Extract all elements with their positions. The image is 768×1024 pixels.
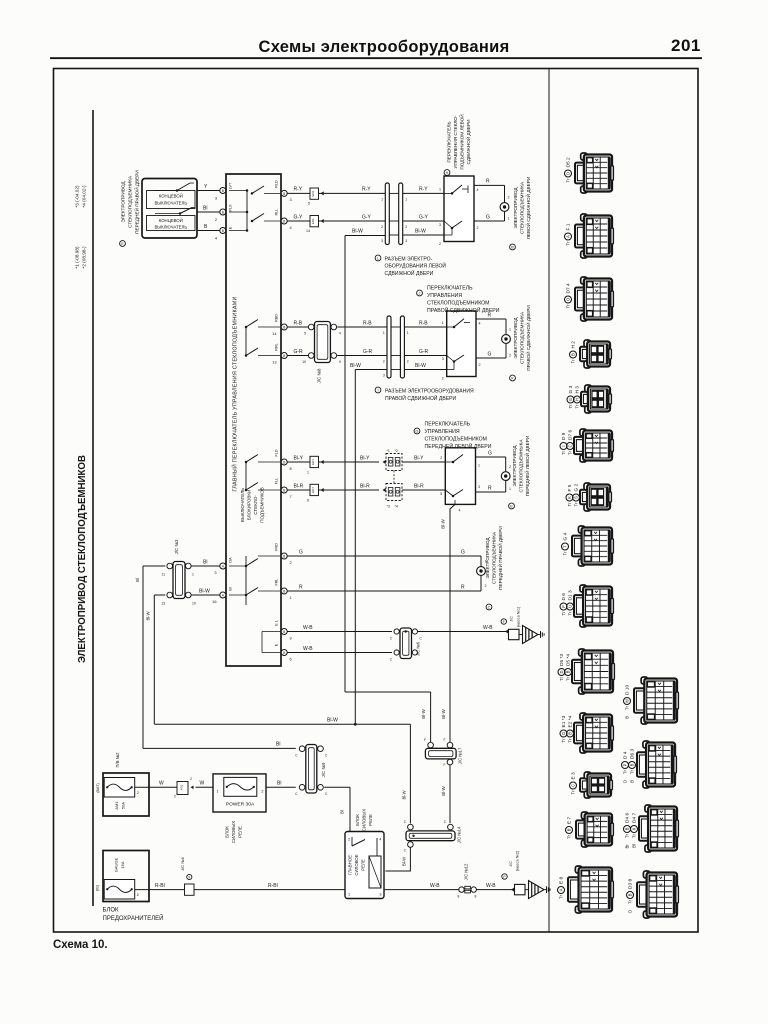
svg-text:Bl: Bl: [340, 810, 345, 814]
svg-text:Тг: Тг: [561, 738, 566, 743]
svg-text:Bl-W: Bl-W: [401, 857, 406, 866]
svg-text:Bl-R: Bl-R: [360, 483, 370, 489]
svg-text:*2: *2: [395, 449, 398, 453]
svg-text:R-B: R-B: [363, 320, 372, 326]
svg-text:R-Y: R-Y: [362, 187, 371, 193]
svg-text:В: В: [630, 763, 635, 766]
svg-text:СТЕКЛОПОДЪЕМНИКА: СТЕКЛОПОДЪЕМНИКА: [492, 531, 497, 584]
svg-text:E 3: E 3: [571, 772, 577, 780]
svg-text:СИЛОВОЕ: СИЛОВОЕ: [354, 854, 359, 875]
svg-text:1: 1: [407, 331, 409, 335]
svg-text:8: 8: [290, 466, 292, 471]
svg-text:D4 7: D4 7: [632, 813, 638, 823]
svg-text:2: 2: [407, 360, 409, 364]
svg-text:B: B: [625, 716, 630, 719]
svg-text:(IG): (IG): [96, 884, 100, 891]
svg-text:Тг: Тг: [630, 769, 635, 774]
svg-text:С: С: [568, 444, 573, 447]
svg-text:Т: Т: [563, 545, 568, 548]
svg-text:2: 2: [348, 838, 350, 842]
svg-text:Bl-Y: Bl-Y: [294, 455, 304, 461]
svg-text:R: R: [488, 485, 492, 491]
svg-text:F: F: [444, 738, 446, 742]
svg-text:2: 2: [442, 377, 444, 381]
svg-text:C: C: [325, 754, 328, 758]
svg-text:РЕЛЕ: РЕЛЕ: [361, 859, 366, 871]
svg-text:В: В: [567, 828, 572, 831]
svg-text:ED1: ED1: [311, 459, 315, 465]
svg-text:5: 5: [304, 332, 306, 336]
svg-text:Bl-W: Bl-W: [415, 363, 426, 369]
svg-text:О: О: [623, 779, 628, 783]
svg-text:*2 (08.98-): *2 (08.98-): [82, 246, 87, 269]
svg-text:В: В: [511, 246, 514, 250]
svg-text:УПРАВЛЕНИЯ: УПРАВЛЕНИЯ: [425, 429, 460, 435]
svg-text:R-Y: R-Y: [294, 187, 303, 193]
svg-text:СДВИЖНОЙ ДВЕРИ: СДВИЖНОЙ ДВЕРИ: [464, 120, 471, 165]
svg-text:4: 4: [339, 332, 341, 336]
svg-text:3: 3: [439, 223, 441, 227]
svg-text:Тг: Тг: [561, 611, 566, 616]
svg-text:Bl: Bl: [276, 742, 280, 748]
svg-text:G: G: [486, 214, 490, 220]
svg-text:E 7: E 7: [567, 816, 573, 824]
svg-text:F: F: [561, 605, 566, 608]
svg-text:1: 1: [509, 487, 511, 491]
svg-text:G-Y: G-Y: [294, 214, 304, 220]
svg-text:5: 5: [308, 202, 310, 206]
svg-text:3: 3: [442, 357, 444, 361]
svg-text:Тг: Тг: [568, 738, 573, 743]
svg-text:G: G: [299, 549, 303, 555]
svg-text:РАЗЪЕМ ЭЛЕКТРО-: РАЗЪЕМ ЭЛЕКТРО-: [385, 256, 433, 262]
svg-text:RLD: RLD: [275, 180, 279, 188]
svg-text:ПЕРЕДНЕЙ ПРАВОЙ ДВЕРИ: ПЕРЕДНЕЙ ПРАВОЙ ДВЕРИ: [133, 170, 140, 234]
svg-text:Р: Р: [623, 763, 628, 766]
svg-text:J/C: J/C: [510, 616, 514, 622]
svg-text:15A: 15A: [120, 861, 125, 868]
svg-text:ВЫКЛЮЧАТЕЛЬ: ВЫКЛЮЧАТЕЛЬ: [240, 488, 245, 522]
svg-text:2: 2: [137, 893, 139, 897]
svg-text:Bl-W: Bl-W: [352, 228, 363, 234]
svg-text:1: 1: [381, 198, 383, 202]
svg-text:БЛОК: БЛОК: [225, 826, 230, 838]
svg-text:6: 6: [307, 499, 309, 503]
svg-text:4: 4: [477, 188, 479, 192]
svg-text:Тг: Тг: [567, 834, 572, 839]
svg-text:7: 7: [290, 494, 292, 499]
svg-text:D6 3: D6 3: [630, 749, 636, 759]
svg-text:Тг: Тг: [571, 790, 576, 795]
svg-text:U: U: [568, 605, 573, 608]
svg-text:8: 8: [475, 895, 477, 899]
svg-text:W-B: W-B: [303, 625, 313, 631]
svg-text:Тг: Тг: [575, 404, 580, 409]
svg-text:СТЕКЛОПОДЪЕМНИКА: СТЕКЛОПОДЪЕМНИКА: [520, 311, 525, 364]
svg-text:RLL: RLL: [275, 209, 279, 216]
svg-text:А: А: [566, 235, 571, 238]
svg-text:ПРАВОЙ СДВИЖНОЙ ДВЕРИ: ПРАВОЙ СДВИЖНОЙ ДВЕРИ: [427, 306, 500, 314]
svg-text:Y: Y: [204, 184, 208, 190]
svg-text:G-Y: G-Y: [362, 214, 372, 220]
svg-text:J/C №8: J/C №8: [317, 368, 322, 384]
svg-text:О: О: [561, 732, 566, 735]
svg-text:Тг: Тг: [568, 404, 573, 409]
svg-text:Тг: Тг: [625, 705, 630, 710]
svg-text:Тг: Тг: [566, 241, 571, 246]
svg-text:УПРАВЛЕНИЯ: УПРАВЛЕНИЯ: [427, 293, 462, 299]
svg-text:J/C №6: J/C №6: [180, 856, 185, 870]
svg-text:БЛОКИРОВКИ: БЛОКИРОВКИ: [247, 490, 252, 521]
svg-text:В: В: [566, 670, 571, 673]
svg-text:*4: *4: [395, 505, 398, 509]
svg-text:13: 13: [272, 360, 276, 365]
svg-text:ВЫКЛЮЧАТЕЛЬ: ВЫКЛЮЧАТЕЛЬ: [154, 201, 187, 206]
svg-text:C: C: [325, 792, 328, 796]
svg-text:4: 4: [479, 322, 481, 326]
svg-text:Тг: Тг: [559, 676, 564, 681]
svg-text:6: 6: [290, 657, 292, 662]
svg-text:В: В: [568, 732, 573, 735]
svg-text:Bl-W: Bl-W: [350, 363, 361, 369]
svg-text:В: В: [571, 353, 576, 356]
svg-text:ПРАВОЙ СДВИЖНОЙ ДВЕРИ: ПРАВОЙ СДВИЖНОЙ ДВЕРИ: [385, 394, 457, 402]
svg-text:R: R: [461, 584, 465, 590]
svg-text:1: 1: [307, 471, 309, 475]
svg-text:J/C №3: J/C №3: [174, 539, 179, 555]
svg-text:D 10: D 10: [625, 685, 631, 695]
svg-text:J: J: [419, 292, 421, 296]
svg-text:AD1: AD1: [180, 784, 184, 790]
svg-text:J/C №6: J/C №6: [416, 641, 421, 656]
svg-text:Тг: Тг: [628, 899, 633, 904]
svg-text:ПЕРЕКЛЮЧАТЕЛЬ: ПЕРЕКЛЮЧАТЕЛЬ: [427, 285, 473, 291]
svg-text:К: К: [632, 827, 637, 830]
svg-text:ПРАВОЙ СДВИЖНОЙ ДВЕРИ: ПРАВОЙ СДВИЖНОЙ ДВЕРИ: [524, 305, 531, 371]
svg-text:D: D: [566, 172, 571, 175]
svg-text:Е: Е: [510, 505, 513, 509]
svg-text:Bl: Bl: [135, 578, 140, 582]
svg-text:БЛОК: БЛОК: [355, 814, 360, 826]
svg-text:1: 1: [348, 893, 350, 897]
svg-text:R-B: R-B: [419, 320, 428, 326]
svg-text:ПЕРЕДНЕЙ ЛЕВОЙ ДВЕРИ: ПЕРЕДНЕЙ ЛЕВОЙ ДВЕРИ: [425, 442, 492, 450]
svg-text:D1 3: D1 3: [568, 590, 574, 600]
svg-text:POWER 30A: POWER 30A: [226, 802, 255, 808]
svg-text:J/C: J/C: [509, 861, 513, 867]
svg-text:H 3: H 3: [575, 386, 581, 394]
svg-text:4: 4: [215, 236, 218, 241]
svg-text:Bl: Bl: [203, 559, 207, 565]
svg-text:Н: Н: [446, 171, 449, 175]
svg-text:G-R: G-R: [363, 349, 373, 355]
svg-text:Тг: Тг: [623, 769, 628, 774]
svg-text:R-Bl: R-Bl: [268, 883, 278, 889]
svg-text:Bl-W: Bl-W: [421, 708, 426, 718]
svg-text:G: G: [488, 450, 492, 456]
svg-text:2: 2: [440, 456, 442, 460]
svg-text:ЭЛЕКТРОПРИВОД СТЕКЛОПОДЪЕМНИКО: ЭЛЕКТРОПРИВОД СТЕКЛОПОДЪЕМНИКОВ: [77, 455, 88, 663]
svg-text:ГЛАВНОЕ: ГЛАВНОЕ: [348, 855, 353, 875]
svg-text:ПЕРЕДНЕЙ ЛЕВОЙ ДВЕРИ: ПЕРЕДНЕЙ ЛЕВОЙ ДВЕРИ: [523, 436, 530, 497]
svg-text:Схема 10.: Схема 10.: [53, 939, 108, 951]
svg-text:ЛЕВОЙ СДВИЖНОЙ ДВЕРИ: ЛЕВОЙ СДВИЖНОЙ ДВЕРИ: [524, 177, 531, 239]
svg-text:1: 1: [290, 595, 292, 600]
svg-text:*1 (-08.98): *1 (-08.98): [75, 246, 80, 269]
svg-text:E 1: E 1: [275, 620, 279, 626]
svg-text:14: 14: [272, 331, 277, 336]
svg-text:E2 *4: E2 *4: [568, 715, 574, 727]
svg-text:1: 1: [439, 188, 441, 192]
svg-text:G-R: G-R: [294, 349, 304, 355]
svg-text:10: 10: [192, 602, 196, 606]
svg-text:ЭЛЕКТРОПРИВОД: ЭЛЕКТРОПРИВОД: [485, 537, 490, 579]
svg-text:Bl-W: Bl-W: [415, 228, 426, 234]
svg-text:1: 1: [508, 217, 510, 221]
svg-text:W: W: [625, 699, 630, 703]
svg-text:R-Bl: R-Bl: [155, 883, 165, 889]
svg-text:2: 2: [215, 217, 217, 222]
svg-text:Н: Н: [575, 398, 580, 401]
svg-text:D5 2: D5 2: [566, 157, 572, 167]
svg-text:В: В: [625, 827, 630, 830]
svg-text:1: 1: [405, 198, 407, 202]
svg-text:Е: Е: [121, 242, 124, 246]
svg-text:J/C №9: J/C №9: [321, 762, 326, 778]
svg-text:11: 11: [161, 573, 165, 577]
svg-text:ВЫКЛЮЧАТЕЛЬ: ВЫКЛЮЧАТЕЛЬ: [154, 225, 187, 230]
svg-text:J/C №17: J/C №17: [458, 747, 463, 764]
svg-text:G 4: G 4: [563, 532, 569, 540]
svg-text:R: R: [299, 584, 303, 590]
svg-text:G: G: [568, 398, 573, 401]
svg-text:C: C: [390, 658, 393, 662]
svg-text:Тг: Тг: [566, 676, 571, 681]
svg-text:(масса №2): (масса №2): [516, 850, 520, 871]
svg-text:ПОДЪЕМНИКОМ ЛЕВОЙ: ПОДЪЕМНИКОМ ЛЕВОЙ: [458, 114, 465, 169]
svg-text:13: 13: [161, 602, 165, 606]
svg-text:3: 3: [215, 196, 217, 201]
svg-text:Тг: Тг: [571, 359, 576, 364]
svg-text:FLD: FLD: [275, 449, 279, 456]
svg-text:FRL: FRL: [275, 579, 279, 586]
svg-text:Тг: Тг: [566, 304, 571, 309]
svg-text:О: О: [628, 909, 633, 913]
svg-text:50A: 50A: [121, 802, 126, 809]
svg-text:G 3: G 3: [568, 385, 574, 393]
svg-text:G: G: [416, 430, 419, 434]
svg-text:9: 9: [339, 360, 341, 364]
svg-text:W-B: W-B: [430, 883, 440, 889]
svg-text:B: B: [204, 224, 208, 230]
svg-text:ПЕРЕДНЕЙ ПРАВОЙ ДВЕРИ: ПЕРЕДНЕЙ ПРАВОЙ ДВЕРИ: [496, 526, 503, 590]
svg-text:W: W: [200, 781, 205, 787]
svg-text:C: C: [390, 637, 393, 641]
svg-text:F: F: [444, 763, 446, 767]
svg-text:*4 (04.02-): *4 (04.02-): [82, 185, 87, 208]
svg-text:Тг: Тг: [568, 450, 573, 455]
svg-text:2: 2: [383, 360, 385, 364]
svg-text:С: С: [571, 784, 576, 787]
svg-text:С: С: [488, 606, 491, 610]
svg-text:Вl: Вl: [632, 844, 637, 848]
svg-text:СТЕКЛОПОДЪЕМНИКА: СТЕКЛОПОДЪЕМНИКА: [520, 181, 525, 234]
svg-text:1: 1: [217, 790, 219, 794]
svg-text:СИЛОВЫХ: СИЛОВЫХ: [231, 821, 236, 843]
svg-text:4: 4: [290, 225, 293, 230]
svg-text:УПРАВЛЕНИЯ СТЕКЛО-: УПРАВЛЕНИЯ СТЕКЛО-: [453, 115, 458, 169]
svg-text:R-B: R-B: [294, 320, 303, 326]
svg-text:W-B: W-B: [303, 646, 313, 652]
svg-text:3: 3: [290, 197, 292, 202]
svg-text:ЭЛЕКТРОПРИВОД: ЭЛЕКТРОПРИВОД: [513, 317, 518, 359]
svg-text:СИЛОВЫХ: СИЛОВЫХ: [362, 809, 367, 831]
svg-text:Bl-W: Bl-W: [402, 790, 407, 799]
svg-text:ЭЛЕКТРОПРИВОД: ЭЛЕКТРОПРИВОД: [513, 187, 518, 229]
svg-text:D3 8: D3 8: [628, 879, 634, 889]
svg-text:2: 2: [508, 196, 510, 200]
svg-text:2: 2: [137, 791, 139, 795]
svg-text:К: К: [567, 496, 572, 499]
svg-text:C: C: [404, 820, 407, 824]
svg-text:Bl: Bl: [203, 206, 207, 212]
svg-text:GAUGE: GAUGE: [114, 857, 119, 872]
svg-text:ГЛАВНЫЙ ПЕРЕКЛЮЧАТЕЛЬ УПРАВЛЕН: ГЛАВНЫЙ ПЕРЕКЛЮЧАТЕЛЬ УПРАВЛЕНИЯ СТЕКЛОП…: [231, 296, 239, 491]
svg-text:1: 1: [383, 331, 385, 335]
svg-text:LVT: LVT: [229, 182, 233, 189]
svg-text:КОНЦЕВОЙ: КОНЦЕВОЙ: [159, 218, 183, 223]
svg-text:F 1: F 1: [566, 223, 572, 230]
svg-text:Тг: Тг: [574, 502, 579, 507]
svg-text:1: 1: [192, 573, 194, 577]
svg-text:(ВАТ): (ВАТ): [96, 783, 100, 793]
svg-text:ПЕРЕКЛЮЧАТЕЛЬ: ПЕРЕКЛЮЧАТЕЛЬ: [447, 121, 452, 162]
svg-text:ПОДЪЕМНИКОВ: ПОДЪЕМНИКОВ: [260, 487, 265, 523]
svg-text:Bl-W: Bl-W: [146, 611, 151, 620]
svg-text:10: 10: [302, 360, 306, 364]
svg-text:*1: *1: [387, 449, 390, 453]
svg-text:FLL: FLL: [275, 478, 279, 484]
svg-text:СТЕКЛОПОДЪЕМНЫКА: СТЕКЛОПОДЪЕМНЫКА: [519, 439, 524, 493]
svg-text:I: I: [377, 389, 378, 393]
svg-text:2: 2: [405, 225, 407, 229]
svg-text:Тг: Тг: [561, 450, 566, 455]
svg-text:E 8: E 8: [559, 876, 565, 884]
svg-text:3: 3: [214, 570, 216, 575]
svg-text:РАЗЪЕМ ЭЛЕКТРООБОРУДОВАНИЯ: РАЗЪЕМ ЭЛЕКТРООБОРУДОВАНИЯ: [385, 388, 474, 394]
svg-text:S: S: [574, 496, 579, 499]
svg-text:Тг: Тг: [625, 833, 630, 838]
svg-text:R: R: [486, 179, 490, 185]
svg-text:C: C: [420, 637, 423, 641]
svg-text:П/В №2: П/В №2: [115, 752, 120, 768]
svg-text:ПРЕДОХРАНИТЕЛЕЙ: ПРЕДОХРАНИТЕЛЕЙ: [103, 914, 164, 922]
svg-text:В: В: [630, 780, 635, 783]
svg-text:(масса №1): (масса №1): [517, 606, 521, 627]
svg-text:3: 3: [478, 485, 480, 489]
svg-text:Тг: Тг: [566, 178, 571, 183]
svg-text:3: 3: [383, 374, 385, 378]
svg-text:W-B: W-B: [483, 625, 493, 631]
svg-text:D7 4: D7 4: [566, 283, 572, 293]
svg-text:Тг: Тг: [563, 551, 568, 556]
svg-text:8: 8: [458, 895, 460, 899]
svg-text:14: 14: [306, 229, 310, 233]
svg-text:G-Y: G-Y: [419, 214, 429, 220]
svg-text:О: О: [566, 298, 571, 301]
svg-text:G-R: G-R: [419, 349, 429, 355]
svg-text:3: 3: [405, 239, 407, 243]
svg-text:ED1: ED1: [311, 190, 315, 196]
svg-text:W-B: W-B: [486, 883, 496, 889]
svg-text:Bl-W: Bl-W: [441, 785, 446, 795]
svg-text:J/C №14: J/C №14: [457, 826, 462, 843]
svg-text:D5 *3: D5 *3: [559, 654, 565, 666]
svg-text:В: В: [628, 893, 633, 896]
svg-text:G: G: [488, 351, 492, 357]
svg-text:СТЕКЛОПОДЪЕМНИКОМ: СТЕКЛОПОДЪЕМНИКОМ: [427, 300, 490, 306]
svg-text:D 6: D 6: [561, 593, 567, 601]
svg-text:2: 2: [477, 226, 479, 230]
svg-text:D: D: [559, 670, 564, 673]
svg-text:ОБОРУДОВАНИЯ ЛЕВОЙ: ОБОРУДОВАНИЯ ЛЕВОЙ: [385, 262, 447, 270]
svg-text:ЭЛЕКТРОПРИВОД: ЭЛЕКТРОПРИВОД: [121, 181, 126, 223]
svg-text:RBD: RBD: [275, 314, 279, 322]
svg-text:2: 2: [290, 560, 292, 565]
svg-text:2: 2: [174, 795, 176, 799]
svg-text:СТЕКЛОПОДЪЕМНИКОМ: СТЕКЛОПОДЪЕМНИКОМ: [425, 436, 488, 442]
svg-text:2: 2: [485, 584, 487, 588]
svg-text:Bl-Y: Bl-Y: [360, 455, 370, 461]
svg-text:D7 6: D7 6: [568, 430, 574, 440]
svg-text:КОНЦЕВОЙ: КОНЦЕВОЙ: [159, 193, 183, 198]
svg-text:Тг: Тг: [568, 611, 573, 616]
svg-text:Bl-Y: Bl-Y: [414, 455, 424, 461]
svg-text:Bl-W: Bl-W: [327, 717, 338, 723]
svg-text:I: I: [561, 445, 566, 446]
svg-text:AM1: AM1: [114, 801, 119, 810]
svg-text:D 4: D 4: [623, 751, 629, 759]
svg-text:Bl: Bl: [277, 781, 281, 787]
svg-text:C: C: [295, 754, 298, 758]
svg-text:L: L: [377, 257, 379, 261]
svg-text:А: А: [559, 888, 564, 891]
svg-text:СДВИЖНОЙ ДВЕРИ: СДВИЖНОЙ ДВЕРИ: [385, 269, 434, 277]
svg-text:R-Y: R-Y: [419, 187, 428, 193]
svg-text:Тг: Тг: [632, 833, 637, 838]
svg-text:16: 16: [212, 599, 216, 604]
svg-text:Bl-W: Bl-W: [441, 708, 446, 718]
svg-text:РЕЛЕ: РЕЛЕ: [238, 826, 243, 838]
svg-text:C: C: [295, 792, 298, 796]
svg-text:9: 9: [290, 636, 292, 641]
svg-text:G: G: [461, 549, 465, 555]
svg-text:ED1: ED1: [311, 487, 315, 493]
svg-text:Тг: Тг: [567, 502, 572, 507]
svg-text:G 2: G 2: [574, 483, 580, 491]
svg-text:Вг: Вг: [625, 844, 630, 849]
svg-text:Тг: Тг: [559, 894, 564, 899]
svg-text:H 2: H 2: [571, 341, 577, 349]
svg-text:3: 3: [379, 893, 381, 897]
svg-text:*3 (-04.02): *3 (-04.02): [75, 185, 80, 208]
svg-text:ЭЛЕКТРОПРИВОД: ЭЛЕКТРОПРИВОД: [512, 445, 517, 487]
svg-text:СТЕКЛОПОДЪЕМНИКА: СТЕКЛОПОДЪЕМНИКА: [128, 175, 133, 228]
svg-text:СТЕКЛО-: СТЕКЛО-: [253, 495, 258, 515]
svg-text:F: F: [424, 738, 426, 742]
svg-text:2: 2: [381, 225, 383, 229]
svg-text:БЛОК: БЛОК: [103, 908, 120, 914]
